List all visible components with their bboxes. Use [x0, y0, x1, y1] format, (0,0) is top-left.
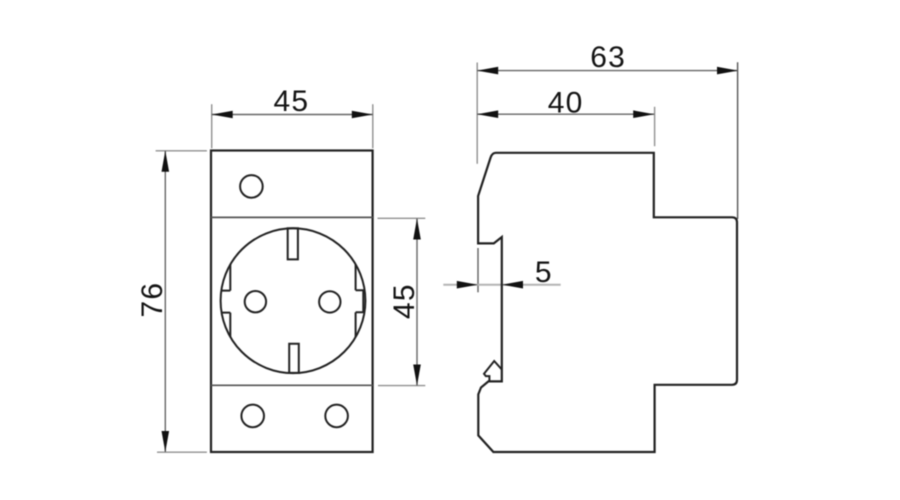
svg-text:76: 76: [136, 282, 169, 318]
svg-text:5: 5: [535, 256, 553, 289]
svg-text:40: 40: [548, 87, 584, 120]
svg-text:45: 45: [388, 283, 421, 319]
svg-text:45: 45: [274, 85, 310, 118]
svg-text:63: 63: [590, 41, 626, 74]
